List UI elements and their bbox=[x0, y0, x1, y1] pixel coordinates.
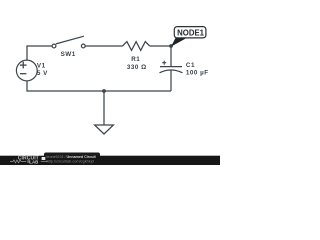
svg-text:R1: R1 bbox=[131, 56, 140, 63]
svg-text:V1: V1 bbox=[37, 62, 46, 69]
svg-text:5 V: 5 V bbox=[37, 70, 48, 77]
svg-text:LAB: LAB bbox=[29, 159, 38, 164]
svg-text:http://circuitlab.com/cgkhkjd: http://circuitlab.com/cgkhkjd bbox=[47, 160, 94, 164]
svg-text:330 Ω: 330 Ω bbox=[127, 64, 147, 71]
svg-text:100 µF: 100 µF bbox=[186, 70, 209, 77]
svg-text:NODE1: NODE1 bbox=[177, 28, 205, 37]
svg-text:SW1: SW1 bbox=[61, 51, 76, 58]
svg-text:C1: C1 bbox=[186, 62, 195, 69]
